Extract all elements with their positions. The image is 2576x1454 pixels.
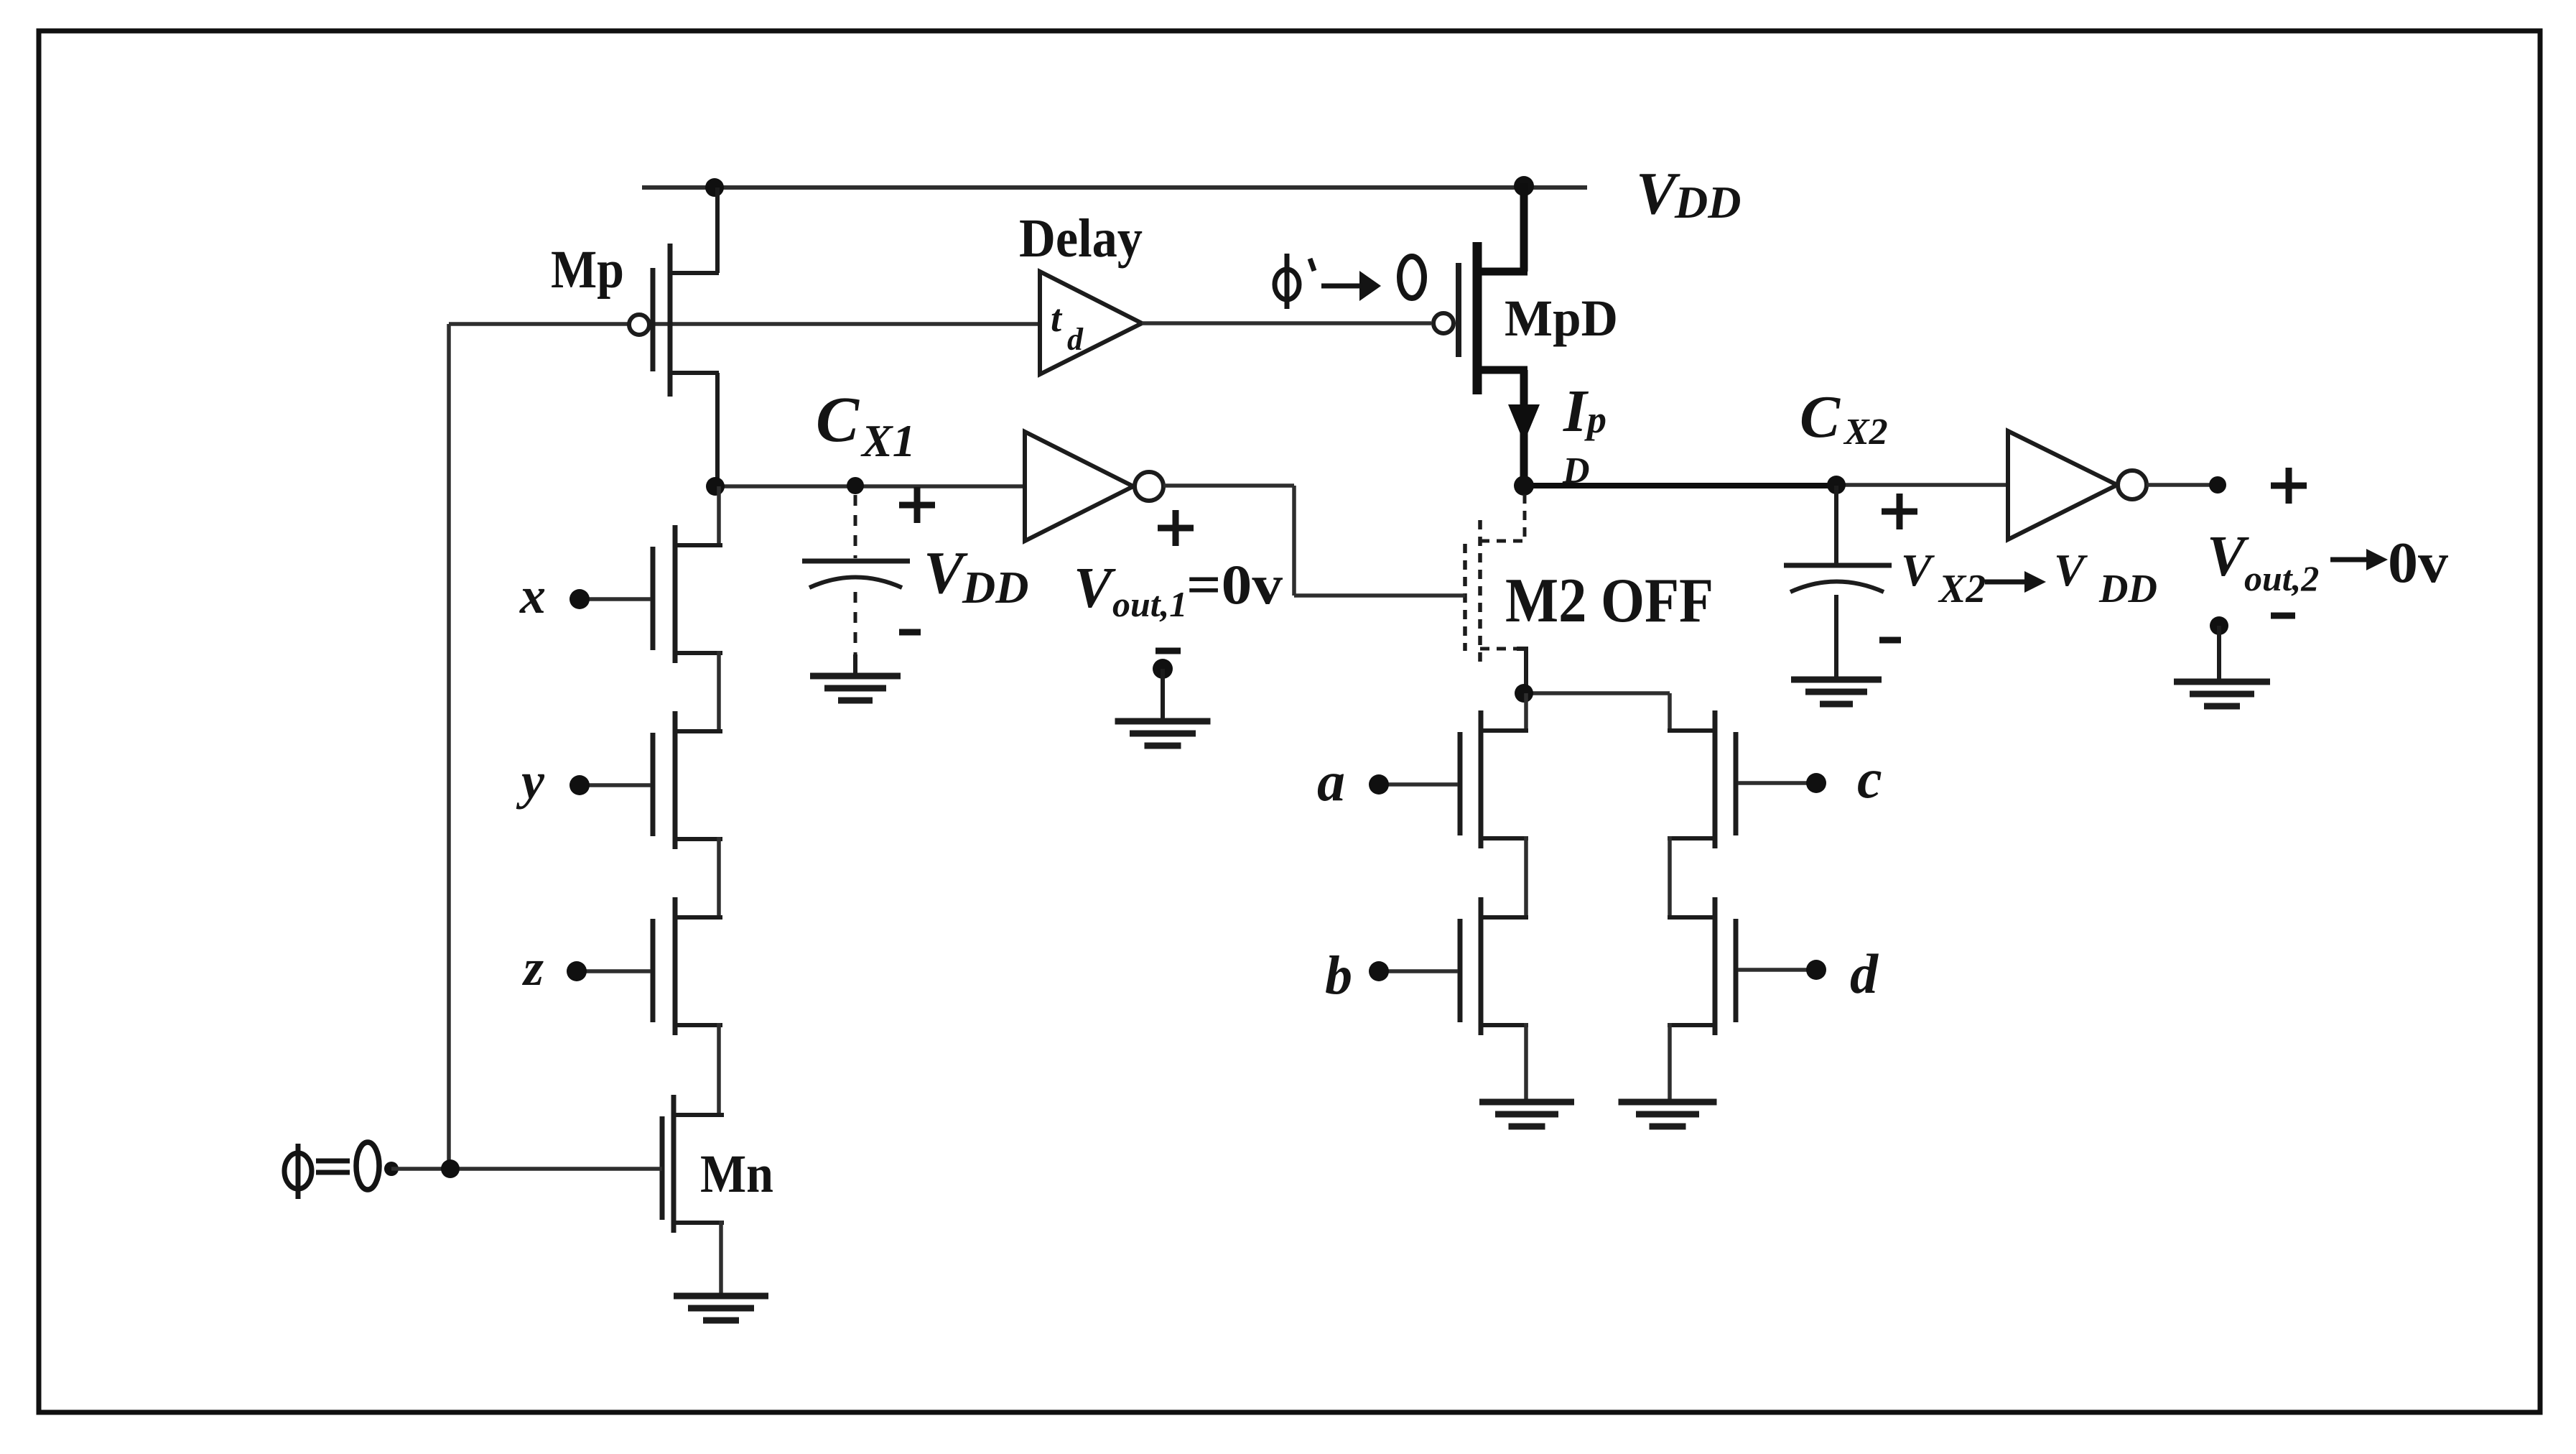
svg-text:a: a: [1317, 750, 1345, 812]
svg-text:V: V: [1901, 545, 1935, 596]
svg-text:I: I: [1563, 378, 1589, 445]
wire y-source to z-drain: [717, 837, 721, 920]
wire left vertical phi bus: [447, 324, 451, 1169]
label phi-prime -> 0: [1275, 254, 1424, 309]
transistor b (NMOS): [1460, 897, 1528, 1035]
svg-text:=0v: =0v: [1186, 553, 1283, 616]
wire d-source to ground: [1668, 1023, 1672, 1104]
node phi junction with left bus: [441, 1159, 460, 1178]
transistor c (NMOS, mirrored): [1668, 710, 1736, 848]
node b input dot: [1369, 961, 1389, 981]
label phi=0 equals sign: [316, 1159, 350, 1164]
wire U1 output: [1163, 483, 1294, 488]
node X2 junction at MpD drain: [1514, 476, 1534, 496]
svg-text:out,1: out,1: [1112, 584, 1187, 624]
label minus at CX1: [899, 629, 921, 636]
svg-text:M2 OFF: M2 OFF: [1505, 566, 1714, 636]
svg-text:C: C: [1800, 384, 1841, 450]
wire stack-c drain: [1668, 693, 1672, 733]
svg-text:p: p: [1584, 398, 1606, 441]
inverter U2 (triangle): [2008, 431, 2117, 540]
wire b gate lead: [1387, 969, 1458, 973]
label plus at U2 output: [2271, 468, 2307, 504]
wire x-source to y-drain: [717, 651, 721, 733]
wire VDD rail: [642, 185, 1587, 190]
wire delay output to MpD gate: [1142, 321, 1431, 325]
capacitor CX1: [802, 495, 910, 676]
node x input dot: [569, 589, 590, 609]
inverter U2 bubble: [2118, 471, 2147, 499]
ground below Mn: [674, 1293, 768, 1300]
node y input dot: [569, 775, 590, 795]
svg-text:Mn: Mn: [700, 1144, 773, 1204]
svg-text:x: x: [519, 567, 546, 624]
svg-text:MpD: MpD: [1505, 290, 1618, 347]
transistor a (NMOS): [1460, 710, 1528, 848]
transistor d (NMOS, mirrored): [1668, 897, 1736, 1035]
label phi=0 symbol phi: [284, 1144, 312, 1199]
wire a gate lead: [1387, 782, 1458, 787]
svg-text:C: C: [816, 384, 860, 455]
svg-text:c: c: [1857, 747, 1882, 810]
svg-text:V: V: [2207, 525, 2249, 588]
wire Mp gate / delay input (phi node): [449, 322, 1040, 326]
wire X1 node: [715, 484, 1025, 488]
wire x gate lead: [587, 597, 651, 601]
transistor y (NMOS): [653, 711, 722, 849]
svg-text:Delay: Delay: [1019, 208, 1143, 269]
transistor Mn (NMOS): [662, 1095, 724, 1233]
node z input dot: [567, 961, 587, 981]
svg-text:X1: X1: [860, 415, 916, 466]
wire c-source to d-drain: [1668, 836, 1672, 920]
label phi=0 zero: [356, 1142, 379, 1190]
svg-text:X2: X2: [1938, 567, 1986, 611]
label minus at out2 ground: [2271, 613, 2295, 619]
wire M2 gate from inverter1: [1294, 593, 1465, 598]
svg-text:X2: X2: [1843, 412, 1888, 453]
node c input dot: [1806, 773, 1826, 793]
wire z-source to Mn-drain: [717, 1023, 721, 1117]
wire a-source to b-drain: [1524, 836, 1528, 920]
svg-text:V: V: [2054, 545, 2088, 596]
wire phi to Mn gate: [391, 1167, 662, 1171]
svg-text:d: d: [1850, 943, 1879, 1005]
transistor MpD (PMOS, thick): [1433, 183, 1528, 486]
svg-text:b: b: [1325, 945, 1352, 1006]
svg-text:t: t: [1051, 297, 1063, 340]
node junction on VDD rail above Mp: [705, 178, 724, 197]
node a input dot: [1369, 774, 1389, 795]
node phi input dot: [384, 1162, 399, 1176]
label plus at X1: [899, 487, 935, 523]
ground mid (U1 reference): [1153, 659, 1173, 679]
inverter U1 (triangle): [1025, 432, 1133, 541]
transistor z (NMOS): [653, 897, 722, 1035]
label plus at CX2: [1882, 494, 1917, 529]
wire M2 source to stack node: [1524, 691, 1670, 695]
node X2 junction at CX2: [1827, 476, 1846, 494]
wire stack-a drain: [1524, 693, 1528, 733]
wire y gate lead: [587, 783, 651, 787]
svg-text:V: V: [924, 540, 968, 606]
node U2 output dot: [2209, 476, 2226, 494]
wire b-source to ground: [1524, 1023, 1528, 1104]
svg-text:0v: 0v: [2388, 532, 2448, 595]
wire U2 output: [2147, 483, 2210, 487]
node d input dot: [1806, 960, 1826, 980]
ground below b: [1479, 1099, 1574, 1106]
svg-text:DD: DD: [1674, 177, 1741, 228]
svg-text:d: d: [1067, 322, 1084, 357]
current arrow Ip: [1508, 404, 1540, 443]
svg-text:DD: DD: [962, 562, 1028, 613]
buffer Delay (triangle): [1040, 272, 1142, 374]
svg-text:DD: DD: [2098, 567, 2157, 611]
svg-text:Mp: Mp: [551, 240, 624, 300]
ground below d: [1619, 1099, 1717, 1106]
transistor M2 (dashed, OFF): [1465, 494, 1526, 693]
svg-text:V: V: [1074, 557, 1116, 620]
ground below CX1: [810, 673, 901, 680]
label plus at U1 output: [1158, 510, 1194, 546]
wire X2 node thick segment: [1524, 483, 1836, 488]
label minus at mid ground: [1156, 648, 1181, 654]
wire X1 to x-drain: [717, 486, 721, 547]
wire c gate lead: [1738, 781, 1808, 785]
svg-text:out,2: out,2: [2244, 558, 2319, 598]
wire d gate lead: [1738, 968, 1808, 972]
inverter U1 bubble: [1135, 472, 1163, 501]
wire U1 output corner down: [1292, 486, 1296, 596]
wire X2 node thin segment: [1836, 483, 2009, 487]
node stack top junction: [1515, 684, 1533, 703]
ground at U2 output: [2210, 616, 2228, 635]
svg-text:z: z: [521, 939, 544, 996]
ground below CX2: [1791, 677, 1882, 683]
transistor x (NMOS): [653, 525, 722, 663]
svg-text:V: V: [1636, 160, 1680, 227]
capacitor CX2: [1784, 486, 1892, 680]
transistor Mp (PMOS): [629, 187, 719, 488]
wire z gate lead: [585, 969, 651, 973]
label minus at CX2: [1879, 637, 1901, 644]
node X1 junction at Mp drain: [706, 477, 725, 496]
node junction on VDD rail at MpD: [1514, 176, 1534, 196]
wire Mn source to ground: [719, 1221, 723, 1296]
node X1 junction at CX1: [847, 477, 864, 494]
